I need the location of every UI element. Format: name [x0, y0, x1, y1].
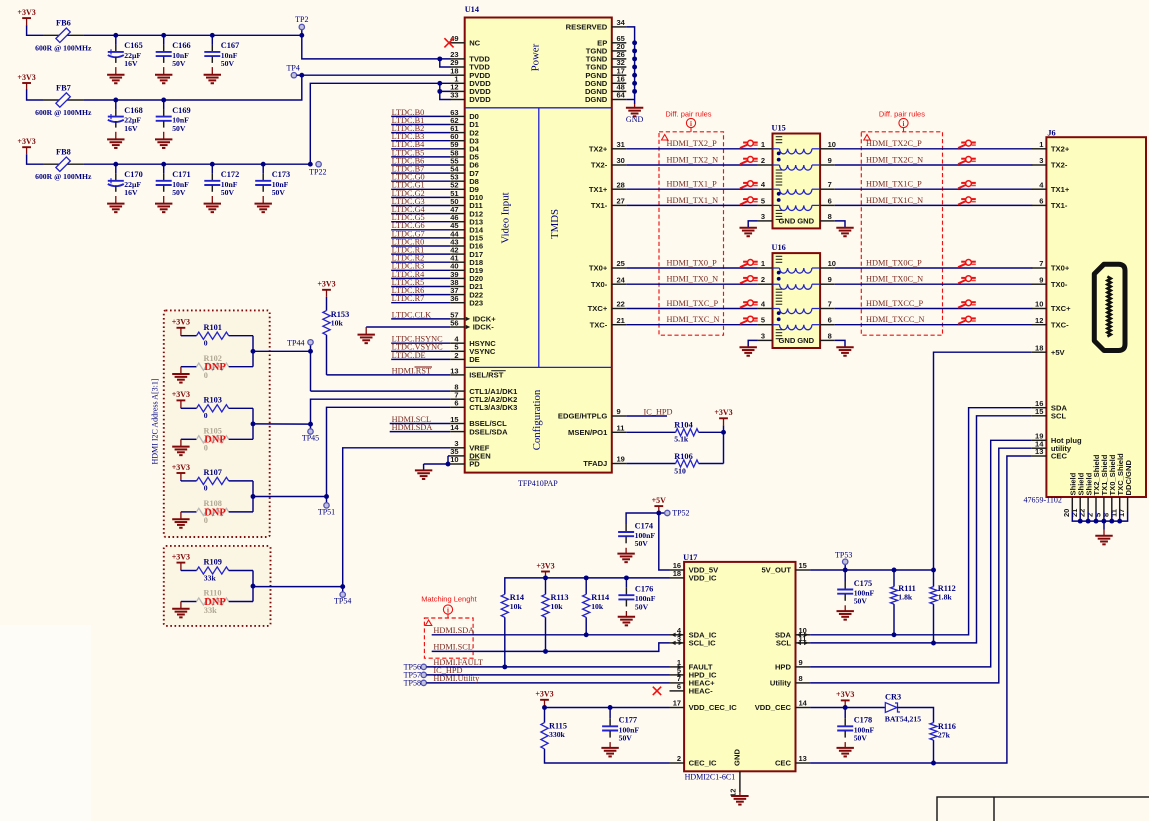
svg-text:C175: C175	[854, 579, 872, 588]
wire rail3 3V3_DVDD	[83, 163, 310, 165]
svg-text:0: 0	[204, 411, 208, 420]
junction	[632, 48, 637, 53]
svg-text:5: 5	[761, 196, 765, 205]
pin 51 D10 net LTDC.G2	[391, 189, 483, 202]
pin 1 DVDD	[450, 75, 491, 89]
junction	[632, 73, 637, 78]
resistor R116	[930, 722, 956, 763]
svg-text:i: i	[447, 606, 449, 614]
svg-text:CR3: CR3	[885, 693, 901, 702]
pin 34 RESERVED	[566, 18, 627, 32]
wire Utility to J6	[810, 448, 1032, 683]
resistor R14	[501, 593, 524, 667]
inductor coil U16 winding 4	[773, 325, 821, 330]
transformer U16 common-mode choke body	[772, 243, 821, 348]
svg-text:TX0-: TX0-	[1051, 280, 1068, 289]
svg-text:HDMI_TX2_P: HDMI_TX2_P	[667, 139, 718, 148]
junction	[632, 89, 637, 94]
resistor R103	[181, 396, 253, 421]
svg-text:CEC_IC: CEC_IC	[689, 759, 717, 768]
ground	[740, 347, 757, 356]
svg-text:2: 2	[761, 275, 765, 284]
wire CTL1 from TP44	[311, 390, 451, 392]
svg-text:PD: PD	[469, 460, 480, 469]
ground	[107, 132, 124, 148]
junction	[931, 641, 936, 646]
svg-text:10: 10	[828, 259, 836, 268]
pin 9 EDGE/HTPLG net IC_HPD	[558, 407, 673, 421]
junction	[584, 575, 589, 580]
capacitor C168	[108, 100, 124, 128]
power +3V3	[17, 8, 35, 25]
pin 35 DKEN	[450, 447, 491, 461]
inductor coil U15 winding 1	[773, 149, 821, 154]
pin 29 TVDD	[450, 58, 490, 72]
wire HDMI_TX0_N	[626, 275, 758, 285]
svg-text:17: 17	[1117, 509, 1126, 517]
diff pair icon HDMI_TX1C_N	[958, 197, 976, 205]
svg-text:16V: 16V	[124, 124, 138, 133]
wire +5V to J6 pin18	[934, 352, 1032, 570]
svg-text:J6: J6	[1047, 128, 1055, 137]
junction	[632, 65, 637, 70]
wire R101 junction to TP44	[253, 350, 311, 352]
svg-text:330k: 330k	[549, 730, 566, 739]
pin 11 MSEN/PO1	[568, 424, 626, 438]
pin 27 TX1-	[591, 197, 626, 211]
pin 44 D15 net LTDC.G7	[391, 229, 484, 242]
ground C178	[837, 742, 854, 756]
svg-text:10k: 10k	[591, 602, 604, 611]
diff pair icon HDMI_TX0_P	[740, 260, 758, 268]
svg-text:+3V3: +3V3	[714, 408, 732, 417]
svg-text:18: 18	[1035, 343, 1043, 352]
resistor R108 DNP	[181, 499, 253, 525]
svg-text:DVDD: DVDD	[469, 95, 491, 104]
pin 6 U16	[820, 316, 835, 325]
svg-text:R107: R107	[204, 468, 222, 477]
svg-text:TP2: TP2	[295, 15, 308, 24]
pin 43 D16 net LTDC.R0	[391, 237, 483, 250]
resistor R106	[626, 452, 723, 476]
svg-text:Matching Lenght: Matching Lenght	[421, 595, 477, 604]
ground	[836, 228, 853, 237]
junction	[1109, 519, 1114, 524]
svg-text:i: i	[903, 120, 905, 128]
svg-text:GND: GND	[797, 336, 814, 345]
svg-text:U15: U15	[772, 124, 786, 133]
ground	[172, 367, 189, 383]
pin 8 Utility	[770, 674, 810, 688]
pin 18 PVDD	[450, 66, 491, 80]
ground	[155, 132, 172, 148]
pin 25 TX0+	[589, 259, 626, 273]
wire DKEN to PD	[448, 455, 450, 457]
pin 4 U15	[758, 180, 773, 189]
svg-text:+3V3: +3V3	[317, 280, 335, 289]
svg-text:TP4: TP4	[287, 63, 300, 72]
svg-text:24: 24	[617, 275, 626, 284]
junction	[299, 33, 304, 38]
svg-text:50V: 50V	[172, 59, 186, 68]
pin 17 VDD_CEC_IC	[670, 699, 738, 713]
svg-text:TX1+: TX1+	[1051, 185, 1070, 194]
pin 30 TX2-	[591, 156, 626, 170]
pin 9 HPD	[775, 658, 810, 672]
pin 5 HPD_IC	[670, 666, 717, 680]
pin 1 J6 TX2+	[1032, 140, 1070, 154]
title block	[937, 797, 1149, 821]
svg-text:7: 7	[1039, 259, 1043, 268]
svg-text:14: 14	[450, 423, 459, 432]
svg-text:ISEL/RST: ISEL/RST	[469, 371, 504, 380]
svg-text:C171: C171	[172, 170, 190, 179]
pin 5 U16	[758, 316, 773, 325]
svg-text:R114: R114	[591, 593, 609, 602]
second address block box	[164, 546, 271, 626]
wire R107 out	[252, 481, 254, 512]
wire HDMI_TXCC_N	[835, 315, 1033, 325]
inductor coil U15 winding 2	[773, 165, 821, 170]
svg-text:13: 13	[799, 754, 807, 763]
svg-text:9: 9	[1039, 275, 1043, 284]
diode CR3 BAT54,215	[885, 693, 922, 724]
power +3V3	[17, 73, 35, 90]
svg-text:FB8: FB8	[56, 148, 71, 157]
wire HDMI_TX1_P	[626, 180, 758, 190]
junction	[632, 56, 637, 61]
ferrite bead FB6	[35, 19, 92, 53]
no-connect X HEAC-	[653, 687, 661, 695]
svg-text:50V: 50V	[221, 59, 235, 68]
svg-text:19: 19	[617, 455, 625, 464]
ground	[740, 228, 757, 237]
junction	[931, 761, 936, 766]
svg-text:TXC+: TXC+	[588, 304, 608, 313]
pin 1 U16	[758, 259, 773, 268]
wire HDMI_TX2_N	[626, 155, 758, 165]
pin 58 D5 net LTDC.B5	[391, 148, 479, 161]
wire bus to ground	[634, 100, 636, 105]
diff pair icon HDMI_TX1_N	[740, 197, 758, 205]
pin 11 J6 TXC_Shield	[1109, 453, 1125, 517]
capacitor C176	[625, 578, 627, 587]
wire HDMI_TX2C_P	[835, 139, 1033, 149]
svg-text:+5V: +5V	[652, 496, 667, 505]
resistor R111	[890, 570, 915, 635]
junction	[113, 162, 118, 167]
junction	[632, 81, 637, 86]
wire DVDD pin33	[440, 91, 451, 99]
svg-text:HDMI_TX2_N: HDMI_TX2_N	[667, 155, 719, 164]
power +5V	[652, 496, 667, 513]
pin 11 SCL	[776, 634, 810, 648]
wire IC_HPD	[426, 666, 669, 675]
directive box Diff. pair rules right	[861, 132, 942, 335]
junction	[543, 575, 548, 580]
pin 9 U16	[820, 275, 835, 284]
capacitor C167	[204, 35, 220, 63]
svg-text:25: 25	[617, 259, 625, 268]
svg-text:2: 2	[677, 754, 681, 763]
svg-text:16V: 16V	[124, 188, 138, 197]
svg-text:C168: C168	[124, 106, 142, 115]
pin 2 U16	[758, 275, 773, 284]
pin 15 J6 SCL	[1032, 407, 1067, 421]
svg-text:33: 33	[450, 91, 458, 100]
ferrite bead FB7	[35, 83, 92, 117]
svg-text:SCL_IC: SCL_IC	[689, 639, 717, 648]
wire TVDD pin29	[440, 59, 451, 67]
resistor R107	[181, 468, 253, 493]
pin 53 D8 net LTDC.G0	[391, 173, 479, 186]
svg-text:R106: R106	[674, 452, 692, 461]
junction	[1117, 519, 1122, 524]
pin 45 D14 net LTDC.G6	[391, 221, 484, 234]
pin 16 J6 SDA	[1032, 399, 1068, 413]
svg-text:Diff. pair rules: Diff. pair rules	[665, 110, 711, 119]
wire HDMI.Utility	[426, 674, 669, 683]
svg-text:9: 9	[828, 275, 832, 284]
wire rail2 3V3_PVDD	[83, 75, 302, 100]
test point TP4	[287, 63, 302, 78]
svg-text:600R @ 100MHz: 600R @ 100MHz	[35, 172, 92, 181]
power +3V3	[535, 690, 553, 707]
svg-text:TX0-: TX0-	[591, 280, 608, 289]
inductor coil U16 winding 3	[773, 309, 821, 314]
svg-text:8: 8	[828, 331, 832, 340]
pin 9 U15	[820, 156, 835, 165]
pin 5 J6 TX1_Shield	[1094, 454, 1110, 517]
pin 13 CEC	[775, 754, 810, 768]
pin 8 J6 TX0_Shield	[1101, 454, 1117, 517]
svg-text:30: 30	[617, 156, 625, 165]
pin 5 U15	[758, 196, 773, 205]
svg-text:TP22: TP22	[309, 168, 326, 177]
pin 1 FAULT	[670, 658, 713, 672]
pin 60 D3 net LTDC.B3	[391, 132, 479, 145]
wire TVDD feed	[302, 35, 451, 59]
svg-text:HDMI_TX1C_P: HDMI_TX1C_P	[866, 180, 922, 189]
pin 52 D9 net LTDC.G1	[391, 181, 479, 194]
HDMI icon contacts	[1107, 277, 1110, 337]
pin 3 U15 GND	[758, 212, 815, 226]
test point TP57	[404, 670, 427, 679]
svg-text:TP52: TP52	[672, 509, 689, 518]
resistor R105 DNP	[181, 427, 253, 453]
resistor R104	[626, 421, 723, 444]
svg-text:9: 9	[799, 658, 803, 667]
junction	[113, 98, 118, 103]
wire 3V3 stem R104	[723, 425, 725, 432]
junction	[261, 162, 266, 167]
svg-text:TX1-: TX1-	[1051, 201, 1068, 210]
svg-text:TFP410PAP: TFP410PAP	[518, 479, 558, 488]
pin 6 HEAC-	[670, 682, 714, 696]
diff pair icon HDMI_TX2_N	[740, 157, 758, 165]
resistor R109	[181, 558, 253, 583]
pin 42 D17 net LTDC.R1	[391, 246, 483, 259]
power +3V3	[172, 390, 190, 407]
pin 57 IDCK+ net LTDC.CLK	[391, 310, 496, 323]
ground	[172, 512, 189, 528]
wire HDMI_TXC_N	[626, 315, 758, 325]
inductor coil U15 winding 3	[773, 189, 821, 194]
directive box Diff. pair rules left	[659, 132, 724, 335]
pin 12 DVDD	[450, 83, 491, 97]
svg-text:50V: 50V	[619, 734, 633, 743]
ground U17	[731, 792, 748, 805]
svg-text:C173: C173	[272, 170, 290, 179]
svg-text:+3V3: +3V3	[17, 137, 35, 146]
pin 56 IDCK-	[366, 318, 494, 331]
ferrite bead FB8	[35, 148, 92, 182]
pin 22 J6 Shield	[1078, 472, 1094, 517]
wire VREF to TP54	[343, 448, 451, 587]
pin 6 CTL3/A3/DK3	[450, 399, 517, 413]
svg-text:Diff. pair rules: Diff. pair rules	[879, 110, 925, 119]
svg-text:5.1k: 5.1k	[674, 435, 689, 444]
pin 14 DSEL/SDA net HDMI.SDA	[390, 423, 508, 436]
svg-text:10k: 10k	[331, 318, 344, 327]
svg-text:HDMI_TX2C_N: HDMI_TX2C_N	[866, 155, 923, 164]
junction	[892, 632, 897, 637]
wire 5V_OUT	[810, 569, 933, 571]
pin 7 U16	[820, 300, 835, 309]
pin 18 J6 +5V	[1032, 343, 1066, 357]
power +3V3	[17, 137, 35, 154]
ground	[204, 67, 221, 83]
wire HDMI_TX1C_P	[835, 180, 1033, 190]
ground	[107, 196, 124, 212]
wire R115 to CEC_IC	[545, 749, 670, 763]
pin 9 J6 TX0-	[1032, 275, 1068, 289]
pin 22 TXC+	[588, 300, 627, 314]
pin 64 DGND	[585, 91, 626, 105]
svg-text:R104: R104	[674, 421, 692, 430]
svg-text:6: 6	[454, 399, 458, 408]
wire R109 junction to TP54	[253, 586, 343, 588]
resistor R102 DNP	[181, 354, 253, 380]
svg-text:+3V3: +3V3	[172, 390, 190, 399]
capacitor C171	[156, 164, 172, 192]
wire HDMI.SCL to SCL_IC	[432, 642, 670, 651]
wire PD to ground	[424, 463, 451, 465]
svg-text:DNP: DNP	[204, 597, 226, 608]
capacitor C175	[844, 570, 846, 582]
svg-text:DNP: DNP	[204, 435, 226, 446]
svg-text:HDMI_TXCC_P: HDMI_TXCC_P	[866, 299, 924, 308]
capacitor C169	[156, 100, 172, 128]
wire CR3 to R116	[898, 708, 934, 723]
svg-text:TX2+: TX2+	[589, 145, 608, 154]
pin 3 U16 GND	[758, 331, 815, 345]
pin 21 TXC-	[590, 316, 627, 330]
svg-text:U16: U16	[772, 243, 786, 252]
pin 7 CTL2/A2/DK2	[450, 390, 517, 404]
svg-text:50V: 50V	[221, 188, 235, 197]
svg-text:28: 28	[617, 180, 625, 189]
core marks U15	[776, 137, 783, 220]
junction	[892, 568, 897, 573]
svg-text:8: 8	[799, 674, 803, 683]
svg-text:TP54: TP54	[334, 597, 351, 606]
svg-text:5: 5	[761, 316, 765, 325]
test point TP51	[318, 497, 335, 517]
svg-text:HDMI_TX0C_P: HDMI_TX0C_P	[866, 258, 922, 267]
wire DVDD feed	[310, 83, 450, 164]
ground C177	[601, 742, 618, 756]
svg-text:HDMI.SDA: HDMI.SDA	[392, 423, 433, 432]
pin 19 J6 Hot plug	[1032, 432, 1082, 446]
junction	[210, 33, 215, 38]
wire HDMI_TX1C_N	[835, 196, 1033, 206]
diff pair icon HDMI_TX1_P	[740, 181, 758, 189]
svg-text:C166: C166	[172, 41, 190, 50]
svg-text:U14: U14	[465, 5, 479, 14]
svg-text:TX0+: TX0+	[1051, 264, 1070, 273]
pin 4 HSYNC net LTDC.HSYNC	[391, 335, 496, 348]
svg-text:6: 6	[828, 196, 832, 205]
svg-text:C176: C176	[635, 585, 653, 594]
test point TP45	[302, 424, 319, 442]
junction	[161, 33, 166, 38]
transformer U15 common-mode choke body	[772, 124, 821, 229]
junction	[251, 421, 256, 426]
svg-text:13: 13	[450, 366, 458, 375]
inductor coil U16 winding 2	[773, 284, 821, 289]
wire HPD to J6	[810, 440, 1032, 667]
power +3V3	[536, 561, 554, 578]
svg-text:HDMI_TXC_P: HDMI_TXC_P	[667, 299, 719, 308]
wire +5V to C174	[626, 513, 659, 524]
pin 14 J6 utility	[1032, 439, 1072, 453]
pin 10 J6 TXC+	[1032, 300, 1071, 314]
svg-text:16V: 16V	[124, 59, 138, 68]
pin 50 D11 net LTDC.G3	[391, 197, 483, 210]
svg-text:TX2-: TX2-	[591, 161, 608, 170]
svg-text:15: 15	[1035, 407, 1043, 416]
wire U14 ground bus	[626, 27, 634, 100]
svg-text:1.8k: 1.8k	[938, 592, 953, 601]
svg-text:SCL: SCL	[1051, 412, 1067, 421]
svg-text:VDD_CEC: VDD_CEC	[755, 703, 792, 712]
svg-text:12: 12	[1035, 316, 1043, 325]
resistor R101	[181, 323, 253, 348]
svg-text:3: 3	[761, 331, 765, 340]
svg-text:U17: U17	[683, 553, 697, 562]
junction	[161, 162, 166, 167]
svg-text:+3V3: +3V3	[535, 690, 553, 699]
pin 18 VDD_IC	[670, 569, 717, 583]
svg-text:13: 13	[1035, 447, 1043, 456]
svg-text:GND: GND	[797, 217, 814, 226]
pin 46 D13 net LTDC.G5	[391, 213, 483, 226]
svg-text:8: 8	[828, 212, 832, 221]
pin 20 TGND	[586, 42, 627, 56]
svg-text:+3V3: +3V3	[172, 552, 190, 561]
pin 16 DGND	[585, 75, 626, 89]
wire R106 to +3V3	[723, 432, 725, 463]
svg-text:TX0+: TX0+	[589, 264, 608, 273]
svg-text:DNP: DNP	[204, 507, 226, 518]
svg-text:7: 7	[828, 180, 832, 189]
junction	[446, 462, 451, 467]
svg-text:HDMI_TX2C_P: HDMI_TX2C_P	[866, 139, 922, 148]
svg-text:47659-1102: 47659-1102	[1024, 496, 1062, 505]
test point TP54	[334, 587, 351, 606]
power +3V3	[836, 690, 854, 707]
